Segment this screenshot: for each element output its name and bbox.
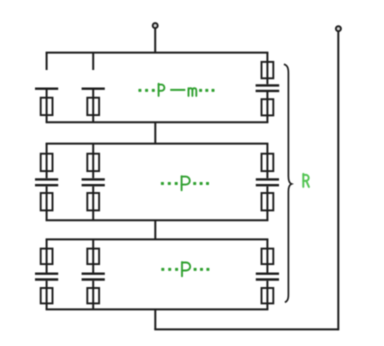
label ...P-m... (parallel elements count, group 1) — [138, 84, 214, 96]
wire bus to fuse of element C3a — [46, 239, 48, 248]
wire bus to fuse of element C2n — [266, 144, 268, 154]
wire from T2 down right side — [337, 31, 339, 330]
capacitor element C2n plates — [256, 179, 279, 185]
upper fuse of element C2a — [41, 154, 53, 171]
wire fuse to capacitor C3b — [92, 264, 94, 272]
capacitor element C1a top electrode wire — [46, 53, 48, 70]
wire fuse to capacitor C2b — [92, 171, 94, 178]
wire fuse to capacitor C3n — [266, 264, 268, 272]
lower fuse of element C3n — [262, 288, 274, 303]
wire bus to fuse of element C3n — [266, 239, 268, 248]
wire capacitor C2n to lower fuse — [266, 186, 268, 193]
terminal T1 (line terminal) — [153, 23, 158, 28]
wire lower fuse C3a to bottom bus — [46, 303, 48, 309]
capacitor element C3b plates — [82, 274, 105, 280]
capacitor element C2b plates — [82, 179, 105, 185]
fuse F1n' (lower, element C1n) — [262, 99, 274, 115]
lower fuse of element C2a — [41, 193, 53, 210]
top bus of series group 3 — [46, 238, 269, 240]
wire bus to fuse of element C2b — [92, 144, 94, 154]
lower fuse of element C3b — [87, 288, 99, 303]
wire C1b fuse to group 1 bottom bus — [92, 115, 94, 122]
wire lower fuse C3b to bottom bus — [92, 303, 94, 309]
wire top bus to fuse F1n — [266, 53, 268, 62]
wire fuse to capacitor C2a — [46, 171, 48, 178]
wire C1a fuse to group 1 bottom bus — [46, 115, 48, 122]
lower fuse of element C3a — [41, 288, 53, 303]
label ...p... (parallel elements count, group 2) — [161, 176, 209, 190]
capacitor element C1a plate — [35, 87, 58, 89]
capacitor element C1b top electrode wire — [92, 53, 94, 70]
fuse of element C1a — [41, 98, 53, 115]
wire F1n' to group 1 bottom bus — [266, 115, 268, 122]
wire bus to fuse of element C2a — [46, 144, 48, 154]
wire C1a plate to fuse — [46, 89, 48, 98]
capacitor C1n plates — [256, 85, 280, 91]
label R (number of series groups) — [303, 174, 309, 187]
fuse F1n (upper, element C1n) — [262, 62, 274, 78]
wire lower fuse C3n to bottom bus — [266, 303, 268, 309]
capacitor element C1b plate — [82, 87, 105, 89]
fuse of element C1b — [87, 98, 99, 115]
wire fuse to capacitor C3a — [46, 264, 48, 272]
label ...p... (parallel elements count, group 3) — [161, 262, 209, 276]
bottom bus of series group 3 — [46, 308, 269, 310]
capacitor element C3n plates — [256, 274, 279, 280]
top bus of series group 2 — [46, 143, 269, 145]
wire capacitor C2a to lower fuse — [46, 186, 48, 193]
wire capacitor C3n to lower fuse — [266, 281, 268, 288]
upper fuse of element C2n — [262, 154, 274, 171]
capacitor element C2a plates — [35, 179, 58, 185]
bottom return wire — [154, 328, 338, 330]
wire joining group 1 to group 2 — [154, 122, 156, 143]
wire capacitor C2b to lower fuse — [92, 186, 94, 193]
wire bus to fuse of element C3b — [92, 239, 94, 248]
wire from group 3 to bottom return — [154, 309, 156, 329]
wire capacitor C3a to lower fuse — [46, 281, 48, 288]
terminal T2 (neutral terminal) — [336, 26, 341, 31]
wire lower fuse C2a to bottom bus — [46, 210, 48, 220]
wire lower fuse C2b to bottom bus — [92, 210, 94, 220]
lower fuse of element C2b — [87, 193, 99, 210]
bottom bus of series group 1 — [46, 121, 269, 123]
wire F1n to capacitor C1n — [266, 78, 268, 84]
wire joining group 2 to group 3 — [154, 220, 156, 239]
upper fuse of element C2b — [87, 154, 99, 171]
wire lower fuse C2n to bottom bus — [266, 210, 268, 220]
wire fuse to capacitor C2n — [266, 171, 268, 178]
brace grouping series sections — [284, 64, 292, 302]
wire from T1 to top bus — [154, 28, 156, 52]
top bus of series group 1 — [46, 52, 269, 54]
bottom bus of series group 2 — [46, 219, 269, 221]
upper fuse of element C3a — [41, 249, 53, 265]
upper fuse of element C3n — [262, 249, 274, 265]
wire capacitor C3b to lower fuse — [92, 281, 94, 288]
wire C1n to fuse F1n' — [266, 92, 268, 99]
lower fuse of element C2n — [262, 193, 274, 210]
wire C1b plate to fuse — [92, 89, 94, 98]
capacitor element C3a plates — [35, 274, 58, 280]
upper fuse of element C3b — [87, 249, 99, 265]
